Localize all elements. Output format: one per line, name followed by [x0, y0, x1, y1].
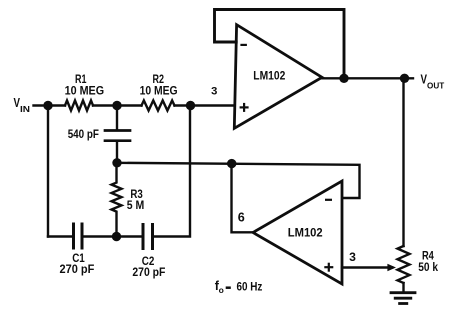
wire bootstrap line to U2 inverting input — [117, 163, 360, 198]
wire R2 to op-amp U1 noninverting input — [175, 104, 235, 106]
capacitor C1 — [74, 224, 83, 248]
svg-text:5 M: 5 M — [127, 198, 145, 212]
resistor R4 potentiometer body — [398, 246, 410, 283]
svg-text:270 pF: 270 pF — [60, 264, 95, 276]
wire left branch bottom to C1 — [48, 235, 72, 237]
label U1 inverting input minus — [240, 44, 247, 46]
svg-text:C1: C1 — [72, 251, 85, 265]
node dot C1 C2 R3 junction — [112, 232, 121, 241]
svg-text:LM102: LM102 — [288, 228, 323, 240]
svg-text:10 MEG: 10 MEG — [140, 83, 178, 97]
wire C1 to node N — [84, 235, 117, 237]
svg-text:60 Hz: 60 Hz — [237, 279, 263, 293]
node dot U2 output junction — [227, 159, 236, 168]
wire node M down to 540pF — [116, 106, 118, 130]
R4 wiper arrowhead — [387, 264, 396, 272]
wire 540pF to bootstrap node — [116, 142, 118, 163]
svg-text:6: 6 — [238, 210, 245, 224]
label U2 inverting input minus — [325, 199, 332, 201]
svg-text:50 k: 50 k — [418, 260, 438, 274]
wire U1 feedback loop output to inverting input — [215, 10, 345, 79]
label U2 noninverting input plus — [324, 263, 333, 272]
node dot U1 output junction — [339, 74, 348, 83]
wire node N to C2 — [117, 235, 142, 237]
wire V_OUT node down to R4 — [402, 78, 404, 246]
wire main input row V_IN to R1 — [34, 104, 66, 106]
label U1 noninverting input plus — [240, 103, 249, 112]
svg-text:o: o — [219, 285, 224, 295]
wire left branch vertical from V_IN node down — [47, 106, 49, 237]
resistor R3 — [112, 163, 122, 237]
svg-text:270 pF: 270 pF — [132, 267, 165, 279]
svg-text:540 pF: 540 pF — [68, 129, 99, 141]
op-amp U2 LM102 — [253, 181, 342, 284]
capacitor C2 — [143, 225, 153, 249]
wire U2 noninverting input to R4 wiper — [342, 266, 392, 268]
svg-text:3: 3 — [349, 250, 356, 264]
svg-text:LM102: LM102 — [253, 71, 285, 83]
op-amp U1 LM102 — [234, 25, 322, 129]
wire U2 output to bootstrap node — [232, 164, 254, 233]
capacitor C3 540 pF — [105, 131, 130, 141]
wire U1 output to V_OUT — [322, 77, 413, 79]
label V_IN — [14, 96, 31, 114]
node dot 540pF bootstrap junction — [112, 158, 121, 167]
label V_OUT — [421, 72, 445, 90]
label frequency f_o = 60 Hz — [215, 279, 263, 295]
wire C2 up to output node — [154, 106, 190, 237]
node dot R1 R2 junction — [112, 101, 121, 110]
ground — [391, 293, 415, 304]
wire R1 to R2 — [93, 104, 142, 106]
node dot R2 output junction — [186, 101, 195, 110]
svg-text:OUT: OUT — [427, 81, 445, 91]
node dot V_IN junction — [43, 101, 52, 110]
resistor R1 — [65, 101, 93, 111]
svg-text:3: 3 — [211, 85, 217, 97]
node dot V_OUT R4 junction — [400, 74, 409, 83]
svg-text:IN: IN — [20, 104, 30, 114]
resistor R2 — [142, 101, 175, 111]
svg-text:10 MEG: 10 MEG — [65, 83, 105, 97]
wire R4 to ground — [402, 283, 404, 291]
